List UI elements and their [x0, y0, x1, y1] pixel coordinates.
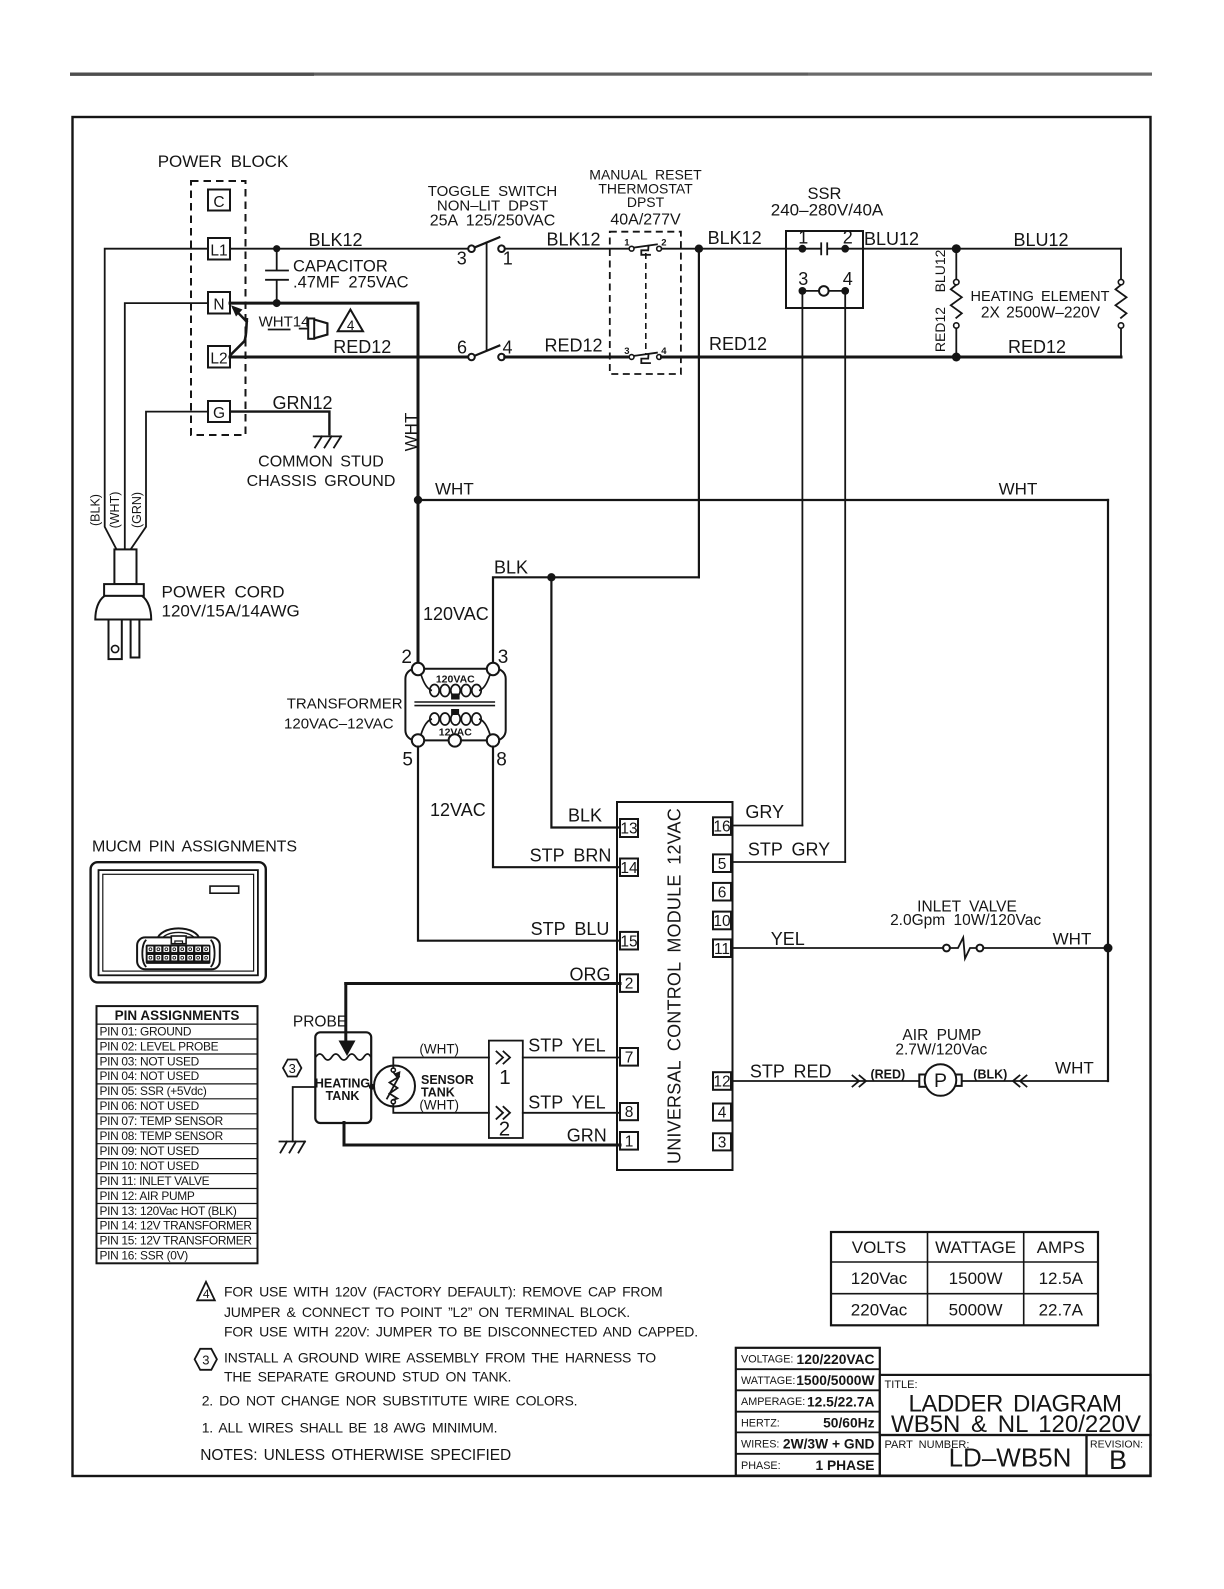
svg-text:HERTZ:: HERTZ: [741, 1417, 780, 1429]
svg-text:PIN 08: TEMP SENSOR: PIN 08: TEMP SENSOR [100, 1129, 224, 1143]
svg-text:GRN12: GRN12 [273, 393, 333, 413]
svg-text:STP BRN: STP BRN [530, 846, 612, 866]
svg-text:PIN 02: LEVEL PROBE: PIN 02: LEVEL PROBE [100, 1039, 219, 1053]
WHT14 label with underline [259, 314, 310, 331]
module pin 12 [713, 1072, 731, 1090]
module pin 11 [713, 939, 731, 957]
toggle switch pole 3-1 [457, 237, 513, 268]
svg-text:1: 1 [624, 238, 630, 249]
svg-text:1: 1 [499, 1066, 510, 1089]
POWER BLOCK title [158, 152, 289, 171]
label (BLK) [89, 494, 103, 526]
svg-text:RED12: RED12 [544, 336, 602, 356]
jumper wire N-L2 [231, 305, 248, 355]
junction dot tank/sensor [369, 1084, 375, 1090]
GRY wire pin16 to SSR pin3 drop [731, 825, 802, 827]
svg-text:CHASSIS GROUND: CHASSIS GROUND [247, 473, 396, 490]
svg-text:BLK12: BLK12 [546, 230, 600, 250]
svg-text:5000W: 5000W [949, 1301, 1003, 1320]
module pin 2 [620, 974, 638, 992]
svg-text:4: 4 [661, 346, 667, 357]
(WHT) label bottom [419, 1098, 459, 1113]
svg-text:2: 2 [499, 1118, 510, 1141]
svg-text:3: 3 [798, 269, 808, 289]
warning triangle note 4 [338, 310, 363, 334]
WHT vertical label on riser [402, 413, 421, 452]
HEATING ELEMENT label [971, 289, 1110, 322]
module pin 8 [620, 1103, 638, 1121]
SENSOR TANK label [421, 1073, 474, 1100]
svg-text:VOLTAGE:: VOLTAGE: [741, 1354, 793, 1366]
tank ground wire [293, 1087, 316, 1142]
svg-text:L1: L1 [210, 243, 227, 260]
wire L2 to toggle switch (RED12 thick) [230, 356, 468, 359]
svg-text:WIRES:: WIRES: [741, 1438, 779, 1450]
SSR pin4 drop wire [844, 291, 846, 862]
drawing border frame [73, 117, 1151, 1476]
svg-text:STP BLU: STP BLU [531, 919, 610, 939]
notes heading [200, 1447, 511, 1464]
junction dot WHT rail/valve [1104, 944, 1113, 953]
COMMON STUD CHASSIS GROUND label [247, 454, 396, 491]
(RED) label [870, 1068, 905, 1082]
svg-text:WATTAGE:: WATTAGE: [741, 1375, 795, 1387]
svg-text:2X 2500W–220V: 2X 2500W–220V [981, 305, 1101, 322]
power cord plug [95, 549, 151, 659]
svg-text:10: 10 [713, 913, 731, 930]
svg-text:BLU12: BLU12 [1013, 230, 1068, 250]
WHT rail horizontal [418, 499, 1108, 501]
svg-text:6: 6 [457, 337, 467, 357]
MUCM module face [91, 862, 266, 982]
temp sensor (thermistor) [374, 1066, 415, 1107]
connector arrows 1 [497, 1052, 511, 1090]
svg-text:.47MF 275VAC: .47MF 275VAC [293, 274, 409, 292]
svg-text:THE SEPARATE GROUND STUD ON TA: THE SEPARATE GROUND STUD ON TANK. [224, 1369, 511, 1385]
svg-text:STP GRY: STP GRY [748, 840, 830, 860]
RED12 label bottom right [1008, 337, 1066, 357]
title block spec table [736, 1348, 880, 1476]
svg-text:PIN 15: 12V TRANSFORMER: PIN 15: 12V TRANSFORMER [100, 1234, 253, 1248]
module pin 7 [620, 1048, 638, 1066]
svg-text:(WHT): (WHT) [419, 1098, 459, 1113]
heating element R1 [951, 249, 962, 357]
svg-text:NOTES: UNLESS OTHERWISE SPECIF: NOTES: UNLESS OTHERWISE SPECIFIED [200, 1447, 511, 1464]
SSR box [786, 231, 863, 308]
capacitor C1 [266, 249, 288, 303]
svg-text:L2: L2 [210, 351, 227, 368]
wire connector to pin7 (STP YEL) [523, 1057, 620, 1059]
svg-text:WHT: WHT [999, 480, 1038, 499]
120VAC label [423, 604, 489, 624]
svg-text:1500/5000W: 1500/5000W [796, 1373, 875, 1388]
wire thermostat to SSR (BLK12) [662, 248, 803, 250]
svg-text:4: 4 [347, 318, 355, 333]
junction dot N/capacitor [273, 299, 281, 307]
junction dot RED12/element1 [952, 353, 961, 362]
svg-text:WATTAGE: WATTAGE [935, 1238, 1016, 1257]
svg-text:PIN 09: NOT USED: PIN 09: NOT USED [100, 1144, 200, 1158]
svg-text:12: 12 [713, 1074, 730, 1091]
note 3 text [224, 1350, 656, 1385]
wire valve to WHT rail [983, 947, 1108, 949]
svg-text:BLK: BLK [568, 806, 602, 826]
RED12 label mid [544, 336, 602, 356]
svg-text:PIN 05: SSR (+5Vdc): PIN 05: SSR (+5Vdc) [100, 1084, 207, 1098]
svg-text:3: 3 [289, 1061, 296, 1076]
svg-text:BLK12: BLK12 [308, 230, 362, 250]
svg-text:120V/15A/14AWG: 120V/15A/14AWG [162, 602, 300, 621]
wire toggle to thermostat top [505, 248, 630, 250]
terminal C [208, 190, 230, 212]
svg-text:120/220VAC: 120/220VAC [797, 1352, 875, 1367]
transformer pin 5 [402, 734, 424, 770]
WHT label at rail right [999, 480, 1038, 499]
RED12 label after thermostat [709, 334, 767, 354]
module pin 14 [620, 859, 638, 877]
svg-text:120VAC: 120VAC [423, 604, 489, 624]
sensor wire 2 [393, 1104, 489, 1113]
POWER CORD label [162, 583, 300, 621]
wire WHT rail to air pump [962, 1080, 1108, 1082]
tank chassis ground [280, 1142, 306, 1153]
probe drop wire [344, 984, 347, 1042]
svg-text:RED12: RED12 [709, 334, 767, 354]
12VAC label [430, 800, 486, 820]
svg-text:1: 1 [798, 228, 808, 248]
svg-text:1. ALL WIRES SHALL BE 18 AWG M: 1. ALL WIRES SHALL BE 18 AWG MINIMUM. [202, 1420, 498, 1436]
svg-text:2: 2 [843, 228, 853, 248]
svg-text:2: 2 [625, 976, 634, 993]
TOGGLE SWITCH title [428, 183, 558, 230]
svg-text:2. DO NOT CHANGE NOR SUBSTITUT: 2. DO NOT CHANGE NOR SUBSTITUTE WIRE COL… [202, 1393, 578, 1409]
MUCM connector [137, 928, 220, 969]
module pin 10 [713, 912, 731, 931]
heating tank [315, 1032, 371, 1123]
TRANSFORMER label [284, 696, 403, 733]
junction dot L1/capacitor [273, 245, 280, 252]
AIR PUMP title [895, 1027, 987, 1059]
toggle switch pole 6-4 [457, 337, 513, 360]
wire thermostat to element row (RED12 thick) [662, 356, 1122, 359]
svg-text:N: N [213, 297, 224, 314]
svg-text:PIN 16: SSR (0V): PIN 16: SSR (0V) [100, 1249, 189, 1263]
BLK drop to module pin13 [551, 577, 620, 827]
junction dot WHT riser/rail [414, 496, 422, 504]
BLK net: transformer pin3 to riser [493, 577, 699, 663]
svg-text:7: 7 [625, 1049, 634, 1066]
svg-text:GRY: GRY [745, 802, 784, 822]
svg-text:WHT: WHT [435, 480, 474, 499]
PIN ASSIGNMENTS table [97, 1006, 258, 1263]
svg-text:1 PHASE: 1 PHASE [815, 1458, 874, 1473]
air pump P1 [919, 1064, 961, 1096]
GRN label [567, 1126, 607, 1146]
svg-text:HEATING ELEMENT: HEATING ELEMENT [971, 289, 1110, 305]
ORG wire probe to pin2 (thick) [346, 982, 620, 985]
svg-text:RED12: RED12 [1008, 337, 1066, 357]
note 4 triangle marker [197, 1282, 215, 1301]
svg-text:2W/3W + GND: 2W/3W + GND [783, 1437, 875, 1452]
svg-text:15: 15 [620, 933, 637, 950]
wire SSR to element (BLU12) [845, 248, 1121, 250]
svg-text:4: 4 [502, 337, 512, 357]
MUCM connector pins [148, 947, 209, 961]
STP BRN label [530, 846, 612, 866]
svg-text:PIN 07: TEMP SENSOR: PIN 07: TEMP SENSOR [100, 1114, 224, 1128]
svg-text:JUMPER & CONNECT TO POINT ”L2”: JUMPER & CONNECT TO POINT ”L2” ON TERMIN… [224, 1304, 630, 1320]
svg-text:(GRN): (GRN) [130, 492, 144, 528]
svg-text:4: 4 [843, 269, 853, 289]
svg-text:COMMON STUD: COMMON STUD [258, 454, 384, 471]
label (WHT) [108, 492, 122, 529]
MANUAL RESET THERMOSTAT title [589, 167, 702, 229]
wire BLK to pin13 label [568, 806, 602, 826]
svg-text:TRANSFORMER: TRANSFORMER [287, 696, 403, 713]
top header rule [70, 73, 1152, 76]
svg-text:BLU12: BLU12 [864, 229, 919, 249]
svg-text:3: 3 [718, 1134, 727, 1151]
SSR pins 1-2 contact [798, 228, 853, 255]
module pin 16 [713, 817, 731, 835]
svg-text:8: 8 [625, 1104, 634, 1121]
svg-text:120VAC–12VAC: 120VAC–12VAC [284, 716, 394, 733]
svg-text:DPST: DPST [627, 194, 665, 210]
svg-text:22.7A: 22.7A [1039, 1301, 1084, 1320]
STP GRY wire pin5 to SSR pin4 drop [731, 861, 845, 863]
svg-text:PIN 04: NOT USED: PIN 04: NOT USED [100, 1069, 200, 1083]
module pin 1 [620, 1132, 638, 1150]
note 1 text [202, 1420, 498, 1436]
svg-text:12.5/22.7A: 12.5/22.7A [807, 1394, 875, 1409]
GRN12 label [273, 393, 333, 413]
BLK riser down to transformer net [698, 249, 700, 578]
RED12 vertical label [932, 307, 948, 352]
svg-text:INSTALL A GROUND WIRE ASSEMBLY: INSTALL A GROUND WIRE ASSEMBLY FROM THE … [224, 1350, 656, 1366]
note 3 hex marker [195, 1349, 217, 1370]
STP RED label [750, 1062, 832, 1082]
svg-text:WHT: WHT [402, 413, 421, 452]
svg-text:STP YEL: STP YEL [528, 1093, 605, 1113]
hex note 3 marker [283, 1060, 301, 1077]
svg-text:AMPERAGE:: AMPERAGE: [741, 1396, 805, 1408]
break arrows right-pointing [853, 1076, 867, 1087]
svg-text:WHT: WHT [1053, 930, 1092, 949]
WHT label at valve [1053, 930, 1092, 949]
svg-text:STP RED: STP RED [750, 1062, 832, 1082]
svg-text:PIN 12: AIR PUMP: PIN 12: AIR PUMP [100, 1189, 195, 1203]
svg-text:PIN ASSIGNMENTS: PIN ASSIGNMENTS [115, 1008, 240, 1023]
(BLK) label [973, 1068, 1007, 1082]
wire cap symbol [300, 319, 328, 339]
svg-text:3: 3 [457, 249, 467, 269]
svg-text:4: 4 [718, 1105, 727, 1122]
wire connector to pin8 (STP YEL) [523, 1112, 620, 1114]
svg-text:FOR USE WITH 220V: JUMPER TO B: FOR USE WITH 220V: JUMPER TO BE DISCONNE… [224, 1324, 698, 1340]
BLU12 label after SSR [864, 229, 919, 249]
svg-text:VOLTS: VOLTS [852, 1238, 906, 1257]
WHT riser vertical [417, 303, 420, 663]
terminal G [208, 401, 230, 422]
PROBE label [293, 1014, 347, 1031]
svg-text:(BLK): (BLK) [973, 1068, 1007, 1082]
BLK label [494, 558, 528, 578]
svg-text:BLK12: BLK12 [708, 228, 762, 248]
inlet valve V1 [943, 938, 983, 959]
ratings table VOLTS/WATTAGE/AMPS [831, 1232, 1098, 1325]
svg-text:25A 125/250VAC: 25A 125/250VAC [430, 213, 556, 230]
svg-text:FOR USE WITH 120V (FACTORY DEF: FOR USE WITH 120V (FACTORY DEFAULT): REM… [224, 1284, 663, 1300]
thermostat contact 3-4 [624, 346, 667, 363]
svg-text:G: G [213, 405, 225, 422]
svg-text:3: 3 [624, 346, 629, 357]
module pin 5 [713, 854, 731, 872]
svg-text:PIN 13: 120Vac HOT (BLK): PIN 13: 120Vac HOT (BLK) [100, 1204, 237, 1218]
note 2 text [202, 1393, 578, 1409]
svg-text:1500W: 1500W [949, 1269, 1003, 1288]
svg-text:14: 14 [620, 860, 638, 877]
svg-text:P: P [934, 1070, 947, 1092]
SSR pins 3-4 coil [798, 269, 853, 296]
universal control module U1 [617, 802, 733, 1170]
label (GRN) [130, 492, 144, 528]
junction dot BLK12 riser [695, 245, 703, 253]
connector arrows 2 [497, 1107, 511, 1141]
BLK12 label after thermostat [708, 228, 762, 248]
junction dot BLK tee [547, 573, 555, 581]
svg-text:PIN 06: NOT USED: PIN 06: NOT USED [100, 1099, 200, 1113]
level probe electrode [339, 1041, 356, 1057]
svg-text:(WHT): (WHT) [108, 492, 122, 529]
wire N to power cord (WHT lead) [125, 303, 208, 549]
svg-text:POWER CORD: POWER CORD [162, 583, 285, 602]
svg-text:RED12: RED12 [932, 307, 948, 352]
svg-text:ORG: ORG [569, 965, 610, 985]
revision box [1087, 1435, 1151, 1476]
(WHT) label top [419, 1042, 459, 1057]
svg-text:GRN: GRN [567, 1126, 607, 1146]
module pin 4 [713, 1104, 731, 1122]
transformer pin 8 [487, 734, 507, 770]
GRN12 wire [229, 412, 329, 436]
svg-text:1: 1 [503, 249, 513, 269]
svg-text:PIN 01: GROUND: PIN 01: GROUND [100, 1024, 192, 1038]
CAPACITOR label [293, 258, 409, 292]
transformer pin 3 [487, 647, 509, 675]
svg-text:PROBE: PROBE [293, 1014, 347, 1031]
svg-text:PIN 10: NOT USED: PIN 10: NOT USED [100, 1159, 200, 1173]
svg-text:120VAC: 120VAC [436, 674, 475, 686]
svg-text:YEL: YEL [771, 929, 805, 949]
wire G to power cord (GRN lead) [131, 412, 208, 550]
svg-text:240–280V/40A: 240–280V/40A [771, 201, 884, 220]
thermostat mechanical link dashed [645, 253, 647, 354]
note 4 text [224, 1284, 698, 1340]
svg-text:(RED): (RED) [870, 1068, 905, 1082]
svg-text:STP YEL: STP YEL [528, 1036, 605, 1056]
svg-text:220Vac: 220Vac [851, 1301, 908, 1320]
YEL wire pin11 to inlet valve [731, 947, 943, 949]
toggle switch mechanical link [486, 243, 488, 351]
transformer T1 [405, 669, 505, 741]
svg-text:11: 11 [714, 941, 730, 958]
svg-text:PHASE:: PHASE: [741, 1460, 781, 1472]
svg-text:12VAC: 12VAC [430, 800, 486, 820]
12VAC wire pin5 to module pin15 [418, 747, 620, 941]
svg-text:C: C [213, 194, 224, 211]
terminal N [208, 292, 230, 314]
YEL label [771, 929, 805, 949]
svg-text:2: 2 [401, 647, 412, 668]
svg-text:1: 1 [625, 1133, 634, 1150]
break arrows left-pointing [1013, 1076, 1027, 1087]
svg-text:3: 3 [202, 1352, 209, 1367]
svg-text:MUCM PIN ASSIGNMENTS: MUCM PIN ASSIGNMENTS [92, 839, 297, 856]
STP GRY label [748, 840, 830, 860]
heating element R2 [1116, 249, 1127, 357]
wire pin8 to module pin14 [493, 747, 620, 868]
module pin 6 [713, 883, 731, 901]
svg-text:TANK: TANK [326, 1089, 360, 1103]
svg-text:13: 13 [620, 821, 637, 838]
transformer pin 2 [401, 647, 424, 675]
svg-text:LD–WB5N: LD–WB5N [949, 1443, 1072, 1473]
BLU12 label right [1013, 230, 1068, 250]
GRY label [745, 802, 784, 822]
wire toggle to thermostat bottom (thick) [505, 356, 630, 359]
SSR title [771, 185, 884, 220]
svg-text:TITLE:: TITLE: [885, 1379, 918, 1391]
WHT right rail vertical [1107, 500, 1109, 1081]
thermostat contact 1-2 [624, 238, 666, 255]
SSR pin3 drop wire [801, 291, 803, 826]
svg-text:PIN 14: 12V TRANSFORMER: PIN 14: 12V TRANSFORMER [100, 1219, 253, 1233]
STP RED wire pin12 to air pump [731, 1080, 919, 1082]
svg-text:B: B [1109, 1445, 1127, 1475]
terminal L1 [208, 238, 230, 260]
terminal L2 [208, 346, 230, 368]
svg-text:3: 3 [498, 647, 509, 668]
svg-text:50/60Hz: 50/60Hz [823, 1416, 874, 1431]
transformer center tap [449, 734, 461, 746]
svg-text:2: 2 [661, 238, 666, 249]
title box [880, 1375, 1151, 1438]
wire L1 to toggle switch [230, 248, 468, 250]
module pin 3 [713, 1133, 731, 1151]
wire N to WHT riser (thick) [230, 302, 418, 305]
STP YEL label top [528, 1036, 605, 1056]
svg-text:4: 4 [203, 1287, 210, 1301]
ORG label [569, 965, 610, 985]
svg-text:5: 5 [402, 750, 413, 771]
svg-text:40A/277V: 40A/277V [610, 212, 681, 229]
svg-text:POWER BLOCK: POWER BLOCK [158, 152, 289, 171]
power block dashed outline [191, 181, 246, 435]
svg-text:120Vac: 120Vac [851, 1269, 908, 1288]
module pin 15 [620, 932, 638, 950]
RED12 label at power block [333, 337, 391, 357]
svg-text:6: 6 [718, 884, 727, 901]
svg-text:BLU12: BLU12 [932, 249, 948, 292]
WHT label at rail left [435, 480, 474, 499]
sensor wire 1 [393, 1058, 489, 1069]
MUCM PIN ASSIGNMENTS title [92, 839, 297, 856]
GRN wire tank to pin1 (thick) [344, 1123, 620, 1146]
harness connector box [489, 1041, 523, 1138]
svg-text:AMPS: AMPS [1037, 1238, 1085, 1257]
svg-text:16: 16 [713, 819, 730, 836]
BLU12 vertical label [932, 249, 948, 292]
